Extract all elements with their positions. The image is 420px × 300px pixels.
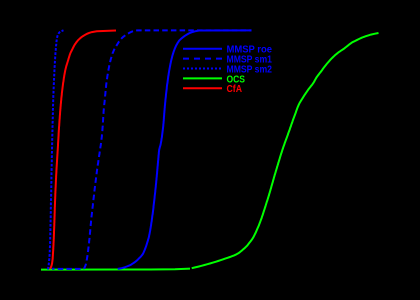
legend swatch MMSP sm1 blue dashed line <box>183 58 222 60</box>
legend swatch CfA red line <box>183 87 222 89</box>
legend swatch MMSP roe blue solid line <box>183 48 222 50</box>
curve OCS green: sigmoid rise <box>192 33 379 268</box>
curve MMSP roe blue solid: rise and plateau <box>118 30 252 269</box>
curve MMSP sm1 blue dashed: rise and plateau <box>84 30 252 268</box>
curve MMSP sm1 blue dashed: baseline tail <box>52 268 84 270</box>
curve CfA red solid: rise and plateau <box>50 31 116 269</box>
curve MMSP sm2 blue dotted <box>48 30 64 269</box>
legend swatch OCS green line <box>183 77 222 79</box>
svg-text:CfA: CfA <box>227 84 243 95</box>
legend swatch MMSP sm2 blue dotted line <box>183 68 222 70</box>
curve OCS green: baseline tail <box>41 269 190 270</box>
